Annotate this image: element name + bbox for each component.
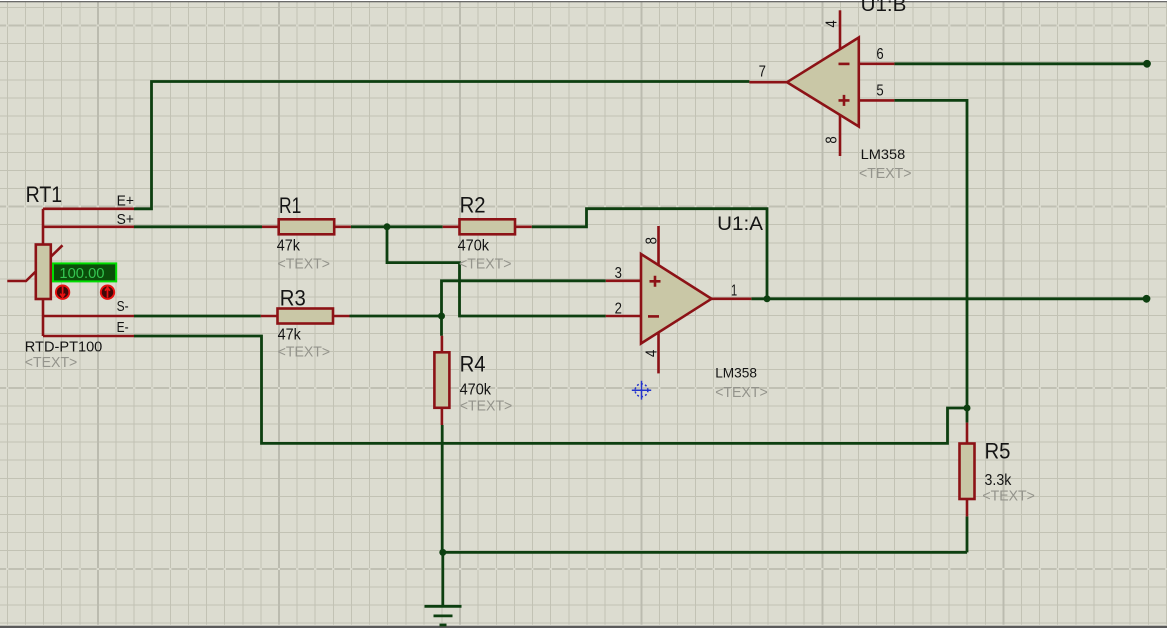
resistor R5 body: [960, 444, 975, 500]
svg-text:R4: R4: [460, 351, 486, 376]
node GND junction dot: [439, 549, 446, 556]
svg-text:<TEXT>: <TEXT>: [460, 399, 513, 415]
resistor RT1 pins: [43, 209, 134, 336]
wire U1:B pin5 to node B: [894, 100, 967, 408]
resistor R1 pins: [262, 226, 351, 229]
op-amp U1:B triangle: [787, 38, 859, 127]
svg-text:<TEXT>: <TEXT>: [278, 256, 331, 272]
major grid vertical lines: [98, 2, 1004, 625]
RT1 down button: [56, 286, 69, 299]
svg-text:E+: E+: [117, 193, 135, 210]
op-amp U1:B minus sign: [839, 63, 850, 66]
node OUT junction dot: [764, 295, 771, 302]
svg-text:3.3k: 3.3k: [985, 472, 1013, 489]
svg-text:<TEXT>: <TEXT>: [459, 256, 512, 272]
svg-text:LM358: LM358: [715, 364, 757, 380]
op-amp U1:A triangle: [641, 254, 712, 344]
resistor R4 pins: [441, 336, 444, 425]
origin marker (blue crosshair): [632, 381, 651, 400]
svg-text:U1:B: U1:B: [861, 0, 907, 16]
svg-text:RTD-PT100: RTD-PT100: [25, 339, 103, 355]
svg-text:<TEXT>: <TEXT>: [715, 385, 768, 401]
svg-text:100.00: 100.00: [59, 266, 104, 282]
endpoint dot pin6 net right edge: [1143, 60, 1151, 68]
svg-text:U1:A: U1:A: [717, 214, 763, 235]
svg-text:R2: R2: [460, 193, 486, 218]
svg-text:5: 5: [876, 83, 883, 100]
svg-text:8: 8: [824, 136, 841, 143]
resistor R2 body: [460, 219, 516, 234]
svg-text:47k: 47k: [278, 327, 302, 344]
node N1 junction dot: [384, 223, 391, 230]
svg-text:470k: 470k: [458, 237, 490, 254]
resistor RT1 diagonal strike: [7, 245, 62, 281]
resistor R3 pins: [261, 315, 350, 318]
wire node A down to R4 top: [440, 316, 443, 336]
svg-text:LM358: LM358: [861, 146, 906, 162]
wire R5 bottom to ground rail corner: [966, 516, 969, 552]
wire S+ net: RT1 S+ to R1 left: [134, 225, 262, 228]
op-amp U1:B pins: [749, 10, 894, 156]
resistor R2 pins: [443, 226, 532, 229]
wire ground rail: [442, 551, 967, 554]
svg-text:S-: S-: [117, 298, 129, 315]
wire R3 right to node A: [350, 315, 442, 318]
op-amp U1:A minus sign: [648, 315, 659, 318]
svg-text:4: 4: [643, 349, 660, 357]
resistor R3 body: [278, 309, 334, 324]
svg-text:R1: R1: [279, 193, 301, 218]
svg-text:2: 2: [615, 301, 622, 318]
svg-text:1: 1: [731, 283, 737, 300]
svg-text:6: 6: [876, 46, 883, 63]
wire R1 right to R2 left through node N1: [351, 225, 443, 228]
svg-text:E-: E-: [117, 319, 129, 336]
RT1 value display box: [53, 263, 116, 281]
svg-text:R3: R3: [280, 285, 306, 310]
op-amp U1:B plus sign: [839, 95, 850, 106]
wire S- net: RT1 S- to R3 left: [134, 315, 261, 318]
svg-text:<TEXT>: <TEXT>: [278, 345, 331, 361]
svg-text:470k: 470k: [460, 381, 492, 398]
wire E+ net: RT1 E+ up and across top to U1:B pin7: [134, 82, 749, 209]
svg-text:RT1: RT1: [26, 182, 63, 207]
wire node N1 down-right to U1:A pin2: [387, 227, 606, 316]
svg-text:4: 4: [824, 20, 841, 28]
svg-text:47k: 47k: [277, 237, 301, 254]
top window border: [0, 0, 1167, 1]
resistor R1 body: [279, 219, 335, 234]
svg-text:8: 8: [643, 237, 660, 244]
svg-text:<TEXT>: <TEXT>: [25, 355, 78, 371]
node B junction dot: [964, 405, 971, 412]
endpoint dot output rail right edge: [1143, 295, 1151, 303]
svg-text:3: 3: [615, 265, 622, 282]
wire R2 right to U1:A output (feedback): [532, 209, 767, 299]
RT1 up button: [101, 286, 114, 299]
bottom window border: [0, 625, 1167, 626]
svg-text:7: 7: [759, 63, 766, 80]
svg-text:<TEXT>: <TEXT>: [859, 166, 912, 182]
svg-text:R5: R5: [985, 438, 1011, 463]
node A junction dot: [438, 313, 445, 320]
op-amp U1:A plus sign: [650, 276, 661, 287]
resistor R5 pins: [966, 423, 969, 517]
wire node A up to U1:A pin3: [442, 281, 606, 316]
resistor RT1 body: [36, 245, 51, 300]
wire node B to R5 top: [966, 408, 969, 423]
wire E- net: RT1 E- right, down, long run right, up to node B: [134, 336, 967, 443]
svg-text:<TEXT>: <TEXT>: [982, 488, 1035, 504]
wire R4 bottom to ground rail: [441, 425, 444, 552]
op-amp U1:A pins: [606, 226, 752, 373]
wire U1:A output rail to right edge: [751, 297, 1147, 300]
ground: [425, 552, 462, 625]
svg-text:S+: S+: [117, 211, 135, 228]
resistor R4 body: [434, 352, 449, 408]
wire U1:B pin6 to right edge: [894, 62, 1147, 65]
